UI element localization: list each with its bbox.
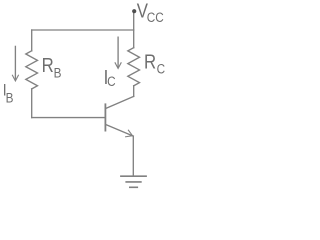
current arrow I_B — [14, 46, 16, 78]
transistor Q1 emitter arrowhead — [126, 130, 133, 137]
wire left vertical upper — [31, 30, 33, 51]
wire left vertical lower — [31, 89, 33, 118]
transistor Q1 collector lead — [105, 96, 133, 108]
svg-text:CC: CC — [147, 9, 164, 25]
transistor Q1 emitter lead — [105, 124, 133, 136]
resistor R_C — [128, 48, 140, 86]
ground — [121, 176, 146, 187]
wire top horizontal — [32, 29, 134, 31]
svg-text:R: R — [42, 54, 54, 77]
transistor Q1 base bar — [104, 104, 106, 130]
svg-text:B: B — [54, 65, 62, 81]
svg-text:R: R — [144, 50, 156, 73]
wire collector vertical — [133, 86, 135, 97]
svg-text:C: C — [107, 73, 115, 89]
node Vcc dot — [132, 9, 136, 13]
wire base horizontal — [32, 117, 105, 119]
wire Vcc vertical — [133, 13, 135, 48]
wire emitter vertical — [132, 136, 134, 176]
svg-text:B: B — [6, 89, 14, 105]
resistor R_B — [26, 51, 38, 89]
current arrow I_C — [117, 37, 119, 66]
svg-text:C: C — [157, 61, 165, 77]
